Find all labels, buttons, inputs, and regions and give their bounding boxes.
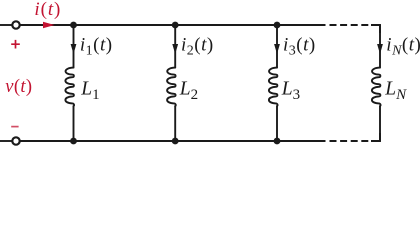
terminal bottom (open circle) (12, 137, 19, 144)
wire branch 2 lower segment (174, 106, 176, 141)
current arrow i(t) head (43, 22, 55, 29)
wire top rail solid (21, 24, 326, 26)
svg-text:i2(t): i2(t) (181, 34, 214, 58)
svg-text:i1(t): i1(t) (80, 34, 113, 58)
svg-text:LN: LN (384, 79, 407, 103)
svg-text:v(t): v(t) (5, 77, 32, 97)
inductor L2 (167, 68, 176, 106)
wire top-right corner (371, 25, 380, 33)
svg-text:iN(t): iN(t) (386, 34, 420, 58)
wire branch 1 upper segment (73, 25, 75, 68)
inductor L1 (65, 68, 74, 106)
wire branch 2 upper segment (174, 25, 176, 68)
terminal top (open circle) (12, 21, 19, 28)
wire branch 4 upper segment (379, 25, 381, 68)
wire bottom-right corner (371, 133, 380, 141)
wire bottom rail solid (21, 140, 326, 142)
node junction dot bottom branch 3 (274, 138, 281, 145)
node junction dot bottom branch 1 (70, 138, 77, 145)
branch current arrow i2(t) head (172, 44, 178, 54)
branch current arrow i1(t) head (71, 44, 77, 54)
svg-text:i(t): i(t) (34, 0, 61, 20)
node junction dot top branch 2 (172, 22, 179, 29)
plus sign (11, 40, 20, 49)
node junction dot top branch 3 (274, 22, 281, 29)
wire branch 1 lower segment (73, 106, 75, 141)
wire bottom rail dashed (330, 140, 372, 142)
branch current arrow i3(t) head (274, 44, 280, 54)
inductor LN (372, 68, 381, 106)
wire branch 3 upper segment (276, 25, 278, 68)
minus sign (11, 126, 18, 128)
wire top-left stub (0, 24, 12, 26)
wire branch 4 lower segment (379, 106, 381, 141)
wire branch 3 lower segment (276, 106, 278, 141)
wire top rail dashed (330, 24, 372, 26)
svg-text:L3: L3 (281, 79, 300, 103)
node junction dot top branch 1 (70, 22, 77, 29)
wire bottom-left stub (0, 140, 12, 142)
inductor L3 (269, 68, 278, 106)
node junction dot bottom branch 2 (172, 138, 179, 145)
svg-text:L2: L2 (179, 79, 198, 103)
svg-text:L1: L1 (80, 79, 99, 103)
svg-text:i3(t): i3(t) (283, 34, 316, 58)
branch current arrow iN(t) head (377, 44, 383, 54)
